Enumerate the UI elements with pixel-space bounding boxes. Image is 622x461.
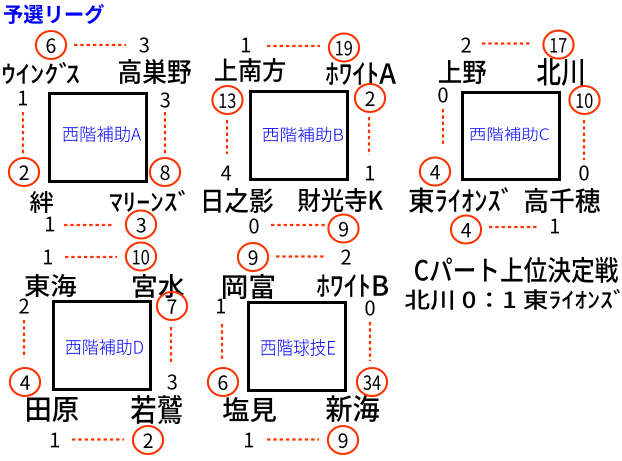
score B bottom-left 0 bbox=[249, 218, 258, 233]
score A right-top 3 bbox=[160, 92, 169, 107]
score E bottom-left 1 bbox=[245, 433, 253, 448]
dash D left bbox=[23, 320, 25, 358]
dash B top bbox=[267, 45, 320, 47]
dash A left bbox=[22, 112, 24, 156]
team 高千穂 bbox=[525, 188, 600, 213]
score E right-top 0 bbox=[365, 300, 374, 315]
label 西階補助A bbox=[63, 126, 141, 142]
score D left-top 2 bbox=[19, 299, 28, 314]
team 東ライオンズ bbox=[409, 187, 508, 213]
team ウイングス bbox=[3, 62, 79, 84]
score A bottom-left 1 bbox=[46, 217, 54, 232]
dash E left bbox=[221, 324, 223, 361]
score C bottom-right 1 bbox=[551, 219, 559, 234]
label 西階補助C bbox=[470, 127, 549, 141]
team 高巣野 bbox=[119, 59, 191, 84]
team 財光寺K bbox=[298, 188, 383, 212]
court square E bbox=[249, 303, 346, 391]
text Cパート上位決定戦 bbox=[415, 257, 618, 283]
score B left-bottom 4 bbox=[221, 166, 231, 181]
team ホワイトB bbox=[317, 274, 388, 297]
dash A bottom bbox=[64, 224, 114, 226]
team 上野 bbox=[439, 60, 486, 84]
team 岡富 bbox=[223, 274, 274, 299]
score C left-bottom (4) bbox=[420, 158, 450, 186]
dash A right bbox=[164, 112, 166, 155]
team 塩見 bbox=[223, 397, 276, 422]
label 西階補助B bbox=[263, 127, 343, 142]
score E top-right 2 bbox=[341, 250, 350, 265]
score E left-bottom (6) bbox=[208, 368, 238, 396]
team 若鷲 bbox=[131, 395, 182, 424]
team 東海 bbox=[25, 274, 76, 297]
team マリーンズ bbox=[110, 190, 185, 212]
dash A top bbox=[74, 44, 126, 46]
court square B bbox=[251, 92, 348, 180]
score D bottom-left 1 bbox=[51, 433, 59, 448]
score B right-top (2) bbox=[355, 84, 385, 112]
team 北川 bbox=[537, 58, 583, 86]
score A top-left (6) bbox=[36, 31, 66, 59]
score A left-top 1 bbox=[19, 91, 27, 106]
score D right-top (7) bbox=[157, 292, 187, 320]
team 日之影 bbox=[204, 188, 273, 213]
dash E right bbox=[369, 322, 371, 361]
score E bottom-right (9) bbox=[328, 426, 358, 454]
dash D bottom bbox=[72, 438, 124, 440]
score D left-bottom (4) bbox=[10, 368, 40, 396]
score B top-left 1 bbox=[242, 38, 250, 53]
score C top-right (17) bbox=[543, 31, 573, 59]
score B top-right (19) bbox=[329, 34, 359, 62]
score B bottom-right (9) bbox=[328, 215, 358, 243]
text 北川 0：1 東ライオンズ bbox=[405, 289, 620, 310]
score C right-bottom 0 bbox=[579, 165, 588, 180]
title 予選リーグ bbox=[4, 4, 104, 24]
dash D right bbox=[170, 327, 172, 365]
score E top-left (9) bbox=[238, 243, 268, 271]
dash C right bbox=[583, 120, 585, 160]
dash B bottom bbox=[271, 224, 326, 226]
score D top-left 1 bbox=[44, 250, 52, 265]
team 宮水 bbox=[133, 274, 184, 298]
score E left-top 1 bbox=[217, 299, 225, 314]
score C right-top (10) bbox=[569, 86, 599, 114]
team 新海 bbox=[326, 395, 379, 422]
dash E bottom bbox=[267, 438, 319, 440]
team 田原 bbox=[27, 397, 78, 422]
dash D top bbox=[65, 256, 117, 258]
court square A bbox=[50, 94, 147, 182]
score C bottom-left (4) bbox=[451, 216, 481, 244]
score C top-left 2 bbox=[461, 38, 470, 53]
label 西階補助D bbox=[66, 339, 143, 355]
score A right-bottom (8) bbox=[150, 158, 180, 186]
dash E top bbox=[276, 255, 326, 257]
dash C left bbox=[442, 109, 444, 144]
score D bottom-right (2) bbox=[133, 426, 163, 454]
score A top-right 3 bbox=[139, 37, 148, 52]
score D top-right (10) bbox=[126, 243, 156, 271]
score A bottom-right (3) bbox=[126, 211, 156, 239]
score C left-top 0 bbox=[438, 87, 447, 102]
court square D bbox=[54, 302, 151, 390]
team 上南方 bbox=[215, 58, 285, 82]
score B left-top (13) bbox=[212, 86, 242, 114]
dash B left bbox=[226, 120, 228, 154]
dash C bottom bbox=[489, 226, 539, 228]
score E right-bottom (34) bbox=[357, 368, 387, 396]
dash C top bbox=[482, 42, 531, 44]
dash B right bbox=[368, 117, 370, 155]
team 絆 bbox=[30, 191, 53, 213]
court square C bbox=[463, 93, 560, 180]
label 西階球技E bbox=[261, 339, 335, 356]
score A left-bottom (2) bbox=[9, 158, 39, 186]
score D right-bottom 3 bbox=[167, 374, 176, 389]
team ホワイトA bbox=[326, 62, 396, 85]
score B right-bottom 1 bbox=[366, 166, 374, 181]
